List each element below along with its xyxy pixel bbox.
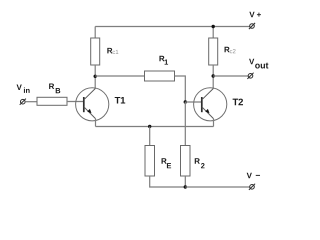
wire T2 emitter down	[213, 119, 215, 127]
label Vout	[249, 59, 268, 69]
wire collector node to R1	[95, 75, 144, 77]
wire R1 right to T2 base node	[175, 76, 186, 102]
wire Rc2 top stub	[212, 27, 214, 39]
wire RE top stub	[149, 127, 151, 146]
label Rc2	[225, 47, 236, 53]
resistor RE	[145, 146, 155, 177]
terminal Vin	[20, 99, 26, 105]
node T2 collector junction Vout	[212, 74, 215, 77]
node Rc2 top rail junction	[212, 25, 215, 28]
node bottom rail junction	[184, 185, 187, 188]
wire emitter rail	[96, 126, 214, 128]
wire base node to T2 base	[185, 101, 202, 103]
wire Rc1 bottom to collector node	[94, 65, 96, 89]
wire Vout	[213, 75, 248, 77]
label R2	[195, 158, 205, 168]
wire T1 emitter down	[95, 119, 97, 127]
terminal V-	[249, 184, 255, 190]
wire R2 bottom stub	[184, 176, 186, 187]
wire top V+ rail	[95, 26, 250, 28]
resistor RB	[37, 97, 67, 105]
terminal Vout	[247, 73, 253, 79]
wire bottom V- rail	[185, 186, 249, 188]
resistor Rc2	[209, 38, 218, 65]
wire Rc2 bottom to collector node	[212, 65, 214, 89]
label RB	[49, 84, 60, 94]
label Rc1	[107, 48, 118, 54]
label T1	[115, 97, 126, 104]
node T1 collector junction	[94, 75, 97, 78]
label V+	[249, 12, 261, 17]
transistor T1	[76, 88, 109, 121]
wire Rc1 top stub	[94, 27, 96, 39]
label V-	[247, 173, 260, 179]
label T2	[233, 99, 243, 106]
wire RE bottom to rail	[150, 176, 186, 187]
resistor Rc1	[91, 38, 100, 65]
label Vin	[17, 85, 30, 93]
label RE	[162, 158, 172, 168]
resistor R2	[181, 146, 191, 177]
resistor R1	[145, 71, 175, 81]
transistor T2	[194, 88, 227, 121]
node RE junction	[148, 125, 151, 128]
node T2 base junction	[184, 100, 187, 103]
wire RB to T1 base	[67, 101, 84, 103]
wire Vin to RB	[25, 101, 37, 103]
power terminal V+	[249, 23, 255, 29]
wire base node down to R2	[184, 102, 186, 146]
label R1	[159, 56, 168, 65]
